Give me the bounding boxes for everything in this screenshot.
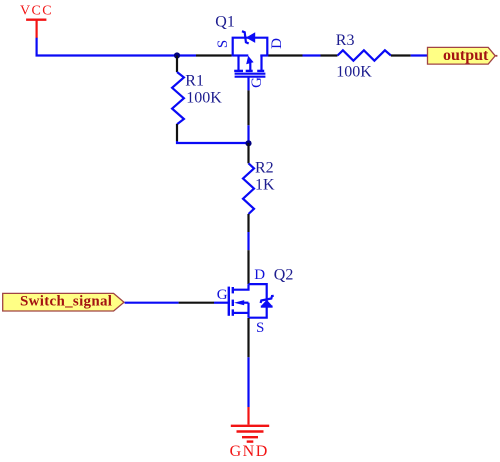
svg-text:Q1: Q1 (215, 14, 235, 31)
svg-text:R3: R3 (336, 32, 355, 49)
pin R3 left (321, 54, 338, 56)
port Switch_signal (3, 293, 124, 311)
pin Q1 S (196, 54, 232, 56)
svg-text:100K: 100K (336, 64, 372, 81)
transistor Q2 (N-MOSFET) (214, 284, 274, 318)
resistor R3 (338, 50, 391, 60)
svg-text:Switch_signal: Switch_signal (20, 294, 112, 310)
svg-text:D: D (254, 267, 265, 283)
svg-text:VCC: VCC (20, 4, 53, 19)
wire Q1 D to R3 (303, 54, 321, 56)
svg-text:100K: 100K (186, 89, 222, 106)
node A junction dot (174, 52, 180, 58)
svg-text:G: G (217, 287, 228, 303)
wire Q2 source to GND (247, 357, 249, 407)
pin Q2 G (179, 302, 214, 304)
VCC power symbol (26, 20, 46, 39)
svg-text:R2: R2 (255, 160, 274, 177)
wire VCC to node A (37, 38, 196, 56)
svg-text:1K: 1K (255, 176, 275, 193)
pin Q1 G (247, 90, 249, 125)
pin Q1 D (268, 54, 303, 56)
wire R3 to output port (411, 54, 428, 56)
resistor R1 (172, 72, 184, 124)
pin R3 right (391, 54, 411, 56)
pin R2 bottom (247, 214, 249, 232)
svg-text:GND: GND (230, 443, 269, 460)
svg-text:G: G (249, 77, 265, 88)
pin Q2 S (247, 318, 249, 357)
transistor Q1 (P-MOSFET) (233, 31, 268, 90)
pin Q2 D (247, 250, 249, 284)
pin R2 top (247, 143, 249, 163)
svg-text:D: D (269, 38, 285, 49)
resistor R2 (243, 163, 254, 214)
svg-text:output: output (443, 47, 489, 64)
pin R1 top (176, 56, 178, 73)
ground symbol GND (231, 407, 269, 442)
output port connection dot (496, 55, 498, 57)
pin R1 bottom (176, 124, 178, 141)
wire R2 to Q2 drain (247, 232, 249, 250)
svg-text:R1: R1 (185, 72, 204, 89)
wire Q1 gate to node B (247, 125, 249, 143)
svg-text:S: S (256, 320, 264, 336)
wire R1 bottom to node B (177, 141, 249, 143)
wire Switch_signal to Q2 gate (125, 302, 179, 304)
node B junction dot (245, 140, 251, 146)
port output (428, 47, 496, 64)
svg-text:Q2: Q2 (274, 266, 294, 283)
svg-text:S: S (215, 40, 231, 48)
